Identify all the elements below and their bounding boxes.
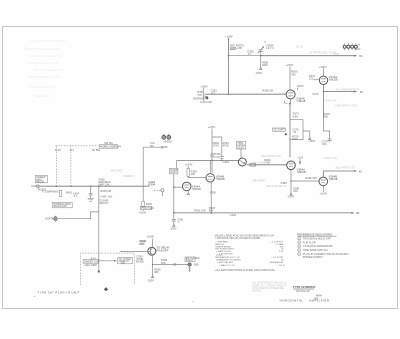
svg-text:R383: R383 xyxy=(281,181,288,185)
svg-text:56K: 56K xyxy=(209,208,214,212)
power +150V position xyxy=(139,210,147,215)
svg-text:B26: B26 xyxy=(194,263,199,267)
capacitor C390 xyxy=(172,217,184,224)
power +100V V384A xyxy=(297,155,303,163)
svg-text:+ 1 R Ω: + 1 R Ω xyxy=(277,264,285,267)
svg-text:SWEEP TRIG HOLDOFF AMP: SWEEP TRIG HOLDOFF AMP xyxy=(24,47,60,51)
svg-text:B3: B3 xyxy=(360,90,364,94)
svg-text:B4: B4 xyxy=(359,54,363,58)
svg-text:SWEEP GENERATOR CKT: SWEEP GENERATOR CKT xyxy=(28,75,61,79)
svg-text:R380 470K: R380 470K xyxy=(324,157,337,160)
svg-text:-100V: -100V xyxy=(147,278,154,282)
svg-text:6.8K: 6.8K xyxy=(292,137,298,141)
svg-text:R391 15K: R391 15K xyxy=(194,208,206,212)
wire dc-shift bypass branch xyxy=(290,120,303,140)
svg-text:6.8K: 6.8K xyxy=(293,114,299,118)
svg-text:CT/SLOPE GENERATOR: CT/SLOPE GENERATOR xyxy=(303,244,333,248)
ground xyxy=(88,198,94,201)
svg-text:SWP MAG: SWP MAG xyxy=(110,170,122,173)
capacitor C406 to ground xyxy=(89,186,93,198)
svg-text:PICKOFF: PICKOFF xyxy=(156,248,168,252)
svg-text:...: ... xyxy=(365,49,367,52)
svg-text:-100V: -100V xyxy=(170,226,177,230)
capacitor C358 xyxy=(247,49,254,56)
svg-text:15K: 15K xyxy=(324,115,329,119)
power -100V xyxy=(147,276,154,283)
svg-text:2.5V: 2.5V xyxy=(279,251,284,253)
wire main node line xyxy=(177,159,239,161)
resistor R394 position xyxy=(142,201,153,207)
svg-text:HORIZ DISPLAY: HORIZ DISPLAY xyxy=(100,144,121,148)
svg-text:POWER SUPPLY: POWER SUPPLY xyxy=(303,255,324,259)
svg-text:TRIGGER & HOLD-OFF: TRIGGER & HOLD-OFF xyxy=(303,236,332,240)
label to delay pickoff xyxy=(156,246,170,253)
svg-text:33K: 33K xyxy=(291,72,296,76)
wire trimmer down xyxy=(260,56,262,67)
svg-text:.01: .01 xyxy=(293,130,297,134)
tube V364B xyxy=(206,174,214,182)
tube V364A trigger CF xyxy=(182,182,191,194)
resistor R356 xyxy=(230,44,245,50)
wire V364B cathode down xyxy=(210,182,212,213)
svg-text:TYPE 547/RM547: TYPE 547/RM547 xyxy=(293,285,316,289)
svg-text:½6DJ8: ½6DJ8 xyxy=(216,177,225,181)
svg-text:B347: B347 xyxy=(354,47,361,51)
power +150V R366 xyxy=(185,163,193,169)
svg-text:R368 1M: R368 1M xyxy=(262,88,273,92)
svg-text:R365: R365 xyxy=(210,191,217,195)
svg-text:C392: C392 xyxy=(230,213,237,217)
svg-text:SWP/MAG AC: SWP/MAG AC xyxy=(269,261,284,264)
svg-text:R408 1M: R408 1M xyxy=(100,189,111,193)
junction xyxy=(228,55,230,57)
svg-text:TYPE 547 PLUG-IN UNIT: TYPE 547 PLUG-IN UNIT xyxy=(37,291,80,295)
wire V374A cathode down xyxy=(323,85,325,119)
power -150V xyxy=(255,67,262,75)
svg-text:HF BW: HF BW xyxy=(92,148,101,152)
svg-text:+ SAW: + SAW xyxy=(224,35,233,39)
svg-text:27K: 27K xyxy=(197,93,202,97)
resistor R373 xyxy=(293,112,300,119)
svg-text:GAIN ADJ: GAIN ADJ xyxy=(200,100,213,104)
svg-text:C400: C400 xyxy=(31,184,38,188)
svg-text:+150V: +150V xyxy=(185,163,193,167)
svg-text:DELAY PICKOFF CKT: DELAY PICKOFF CKT xyxy=(30,85,57,89)
wire V364B plate up xyxy=(209,160,211,172)
svg-text:68K: 68K xyxy=(154,270,159,274)
svg-text:+100: +100 xyxy=(297,155,303,159)
svg-text:INPUT: INPUT xyxy=(186,258,194,262)
svg-text:R394: R394 xyxy=(148,183,155,187)
svg-text:TIME BASE A: TIME BASE A xyxy=(34,94,50,98)
time-base unit boundary xyxy=(80,253,134,285)
svg-text:-150V: -150V xyxy=(287,195,294,199)
tube V364A label xyxy=(296,96,305,103)
wire to -100V xyxy=(303,131,311,140)
junction xyxy=(285,133,287,135)
capacitor C364 xyxy=(220,157,229,164)
svg-text:56K: 56K xyxy=(161,261,166,265)
svg-text:+150V: +150V xyxy=(139,210,147,214)
resistor R369 xyxy=(264,158,271,165)
wire saw input vertical xyxy=(228,39,230,94)
wire arrow to display sw xyxy=(98,260,116,262)
svg-text:1×10: 1×10 xyxy=(55,148,61,152)
tube V374A xyxy=(319,76,327,84)
resistor R401 xyxy=(59,190,72,196)
wire grid line to V364A xyxy=(205,93,286,95)
svg-text:R401: R401 xyxy=(66,191,73,195)
svg-text:TO SWP/MAG: TO SWP/MAG xyxy=(42,189,59,193)
resistor R370 xyxy=(297,84,304,90)
resistor R362 xyxy=(213,141,220,148)
capacitor C379 xyxy=(321,139,331,146)
svg-text:DL 93: DL 93 xyxy=(296,45,303,48)
label to horiz display sw box xyxy=(118,257,133,265)
index diamond xyxy=(104,287,108,291)
svg-text:B6: B6 xyxy=(164,145,168,149)
svg-text:R370: R370 xyxy=(297,84,304,88)
resistor R376 xyxy=(292,134,299,141)
svg-text:L SWP CAL ADJ: L SWP CAL ADJ xyxy=(217,261,233,264)
tube V374A label xyxy=(329,75,338,82)
svg-text:.001: .001 xyxy=(293,189,299,193)
tube V384B label xyxy=(329,174,338,181)
resistor R393 xyxy=(209,206,216,213)
svg-text:FLIP FLOP: FLIP FLOP xyxy=(303,240,316,244)
label sweep mag regis box xyxy=(35,175,47,184)
resistor R358 xyxy=(262,60,269,67)
node +SAW input xyxy=(224,35,233,41)
wire V364A grid xyxy=(174,186,183,188)
resistor R368b on line xyxy=(250,163,255,166)
svg-text:.001: .001 xyxy=(322,142,328,146)
svg-text:+150V: +150V xyxy=(147,235,155,239)
svg-text:½6DJ8: ½6DJ8 xyxy=(297,170,306,174)
tube V384B xyxy=(319,177,328,186)
svg-text:100K: 100K xyxy=(262,63,268,67)
wire junction down xyxy=(173,213,175,220)
power -100V xyxy=(170,224,177,230)
wire centering to pot xyxy=(240,149,242,158)
svg-text:C347: C347 xyxy=(333,53,340,56)
svg-text:(SEE PARTS LIST): (SEE PARTS LIST) xyxy=(335,105,357,108)
svg-text:5.6K: 5.6K xyxy=(214,155,220,159)
svg-text:SEE PARTS: SEE PARTS xyxy=(252,180,266,183)
wire main switch line xyxy=(39,185,149,187)
tube V384A xyxy=(287,161,296,170)
svg-text:270K: 270K xyxy=(264,160,270,164)
connector input terminal xyxy=(31,184,46,191)
wire V384B grid line xyxy=(291,180,319,182)
svg-text:R14: R14 xyxy=(91,256,96,260)
wire V384B plate to B2 xyxy=(323,170,356,177)
reference indicators block xyxy=(297,232,349,259)
svg-text:+150V: +150V xyxy=(200,84,208,88)
label time base xyxy=(136,255,144,264)
resistor R372 xyxy=(309,74,316,81)
tube V364A input CF xyxy=(285,90,296,105)
svg-text:B5: B5 xyxy=(356,211,360,215)
wire transistor base xyxy=(120,251,150,253)
capacitor C404 xyxy=(73,191,80,198)
tube V364B label xyxy=(216,174,225,181)
bottom-right paragraph xyxy=(252,282,287,293)
wire long line to B5 xyxy=(174,212,354,214)
resistor R396 xyxy=(161,258,168,265)
wire R366 to V364B grid xyxy=(188,176,205,177)
resistor R398 xyxy=(154,267,161,274)
power +150V cathode follower xyxy=(147,235,155,248)
wire switch to plug vertical xyxy=(98,186,100,271)
connector J350 pins xyxy=(162,134,172,144)
wire left node branch xyxy=(176,160,178,168)
svg-text:CIRCUIT: CIRCUIT xyxy=(98,201,109,205)
svg-text:DC SHIFT: DC SHIFT xyxy=(274,128,286,132)
power -150V lower xyxy=(287,193,294,199)
potentiometer SWP/MAG GAIN ADJ xyxy=(193,90,213,104)
wire to B3 xyxy=(323,91,357,93)
wire T2A to B6 xyxy=(143,141,168,149)
svg-text:REGIS ADJ: REGIS ADJ xyxy=(53,204,67,208)
svg-text:. . . .: . . . . xyxy=(253,238,257,240)
svg-text:SW: SW xyxy=(121,261,126,265)
svg-text:+SEL SWP: +SEL SWP xyxy=(84,263,97,267)
junction dots xyxy=(56,185,58,187)
svg-text:SEE PARTS LIST: SEE PARTS LIST xyxy=(335,167,355,170)
power +100V V374A xyxy=(319,65,327,76)
svg-text:+GATE: +GATE xyxy=(45,217,54,221)
label trig level centering xyxy=(236,141,245,150)
svg-text:NOTED: NOTED xyxy=(252,290,261,293)
wire gain box down xyxy=(173,174,175,213)
wire plate V364A xyxy=(289,67,291,90)
svg-text:4.7: 4.7 xyxy=(74,194,78,198)
capacitor C358A trimmer xyxy=(258,47,264,56)
resistor R364 xyxy=(223,141,230,148)
svg-text:1M: 1M xyxy=(139,242,143,246)
svg-text:TIME BASE SWITCH: TIME BASE SWITCH xyxy=(303,248,328,252)
svg-text:270K: 270K xyxy=(213,144,219,148)
wire V364A cathode to V384A xyxy=(289,103,291,158)
svg-text:½6DJ8: ½6DJ8 xyxy=(329,78,338,82)
svg-text:TIME/CM AND DELAY TIME: TIME/CM AND DELAY TIME xyxy=(30,54,63,58)
svg-text:SWP CAL: SWP CAL xyxy=(98,182,110,186)
wire top output line to B4 xyxy=(261,55,357,57)
svg-text:POSITION: POSITION xyxy=(141,206,154,210)
svg-text:+225V: +225V xyxy=(286,63,294,67)
label sweep output box xyxy=(83,256,100,267)
svg-text:-100V: -100V xyxy=(308,139,315,143)
wire to trimmer xyxy=(229,55,261,57)
svg-text:HORIZONTAL DISPLAY SW: HORIZONTAL DISPLAY SW xyxy=(26,61,59,65)
wire gate line xyxy=(58,212,99,219)
lamp symbol xyxy=(54,216,58,221)
capacitor C397 xyxy=(174,263,176,266)
svg-text:½6DJ8: ½6DJ8 xyxy=(329,177,338,181)
caption type plug-in unit xyxy=(34,291,80,298)
resistor R399 xyxy=(139,240,146,247)
svg-text:1.5-7.3: 1.5-7.3 xyxy=(266,46,275,50)
svg-text:REFERENCE INDICATORS: REFERENCE INDICATORS xyxy=(297,232,332,236)
svg-text:R374 15K: R374 15K xyxy=(325,100,336,103)
svg-text:BASE): BASE) xyxy=(136,259,144,263)
resistor R360 xyxy=(291,70,298,77)
power +150V gain pot xyxy=(200,84,208,90)
junction xyxy=(173,212,175,214)
svg-text:SWP/MAG: SWP/MAG xyxy=(193,96,206,100)
svg-text:R382 10K: R382 10K xyxy=(305,176,317,180)
svg-text:+100V: +100V xyxy=(320,191,328,195)
svg-text:-150V: -150V xyxy=(255,71,262,75)
labels right of sw line xyxy=(98,178,113,205)
svg-text:+150V: +150V xyxy=(163,139,171,143)
svg-text:FOR EARLIER SN: FOR EARLIER SN xyxy=(266,185,287,188)
wire pot to V384A grid xyxy=(247,164,287,166)
transistor Q393 xyxy=(148,247,156,255)
svg-text:CENT: CENT xyxy=(237,146,244,150)
tube V384A label xyxy=(297,168,306,175)
capacitor C376 xyxy=(292,127,299,134)
potentiometer R367 mag gain xyxy=(238,158,246,166)
svg-text:+100V: +100V xyxy=(319,65,327,69)
svg-text:B6: B6 xyxy=(150,144,154,148)
svg-text:HORIZONTAL AMPLIFIER: HORIZONTAL AMPLIFIER xyxy=(280,299,330,303)
svg-text:+ MAG 2 X 1 W: + MAG 2 X 1 W xyxy=(219,264,235,267)
type number block xyxy=(293,285,322,300)
svg-text:SEE PARTS LIST: SEE PARTS LIST xyxy=(261,155,281,158)
svg-text:MAG GAIN: MAG GAIN xyxy=(251,161,264,164)
svg-text:4.7: 4.7 xyxy=(248,52,252,56)
resistor R352 xyxy=(197,90,204,97)
svg-text:+GATE OUT TO CRT CIRCUIT: +GATE OUT TO CRT CIRCUIT xyxy=(30,39,66,43)
svg-text:220: 220 xyxy=(309,76,314,80)
junction plug xyxy=(98,271,100,273)
resistor R379 xyxy=(324,112,331,119)
svg-text:1×1: 1×1 xyxy=(69,148,74,152)
svg-text:TO LOWER DEFL PL: TO LOWER DEFL PL xyxy=(335,89,360,92)
capacitor C386 xyxy=(293,186,300,193)
svg-text:C409 .001: C409 .001 xyxy=(100,194,113,198)
svg-text:+ALL SWITCHES SHOWN IN DOW: +ALL SWITCHES SHOWN IN DOWN (OFF) POSITI… xyxy=(215,269,276,272)
svg-text:10K: 10K xyxy=(191,172,196,176)
resistor R390 label xyxy=(148,180,155,186)
resistor R366 xyxy=(187,169,197,177)
svg-text:R394: R394 xyxy=(146,202,153,206)
svg-text:½6DJ8: ½6DJ8 xyxy=(296,99,305,103)
tube V364A label xyxy=(192,184,201,191)
svg-text:DELAYING SWEEP TRIG: DELAYING SWEEP TRIG xyxy=(34,68,64,72)
wire B6 branch down xyxy=(142,147,144,201)
label normal mag regis box xyxy=(52,202,72,208)
wire V384A cathode down xyxy=(290,170,292,193)
notes block xyxy=(214,234,284,272)
connector CRT deflection plate pins xyxy=(343,43,357,50)
svg-text:470K: 470K xyxy=(223,144,229,148)
svg-text:S/N 101-UP: S/N 101-UP xyxy=(296,289,310,293)
wire V374A grid xyxy=(314,79,320,81)
switch linkage dashed xyxy=(55,146,98,186)
svg-text:4.7: 4.7 xyxy=(211,91,215,95)
svg-text:½6DJ8: ½6DJ8 xyxy=(192,187,201,191)
svg-text:GAIN: GAIN xyxy=(170,170,176,174)
wire jog right column xyxy=(324,118,330,139)
svg-text:NORM XI: NORM XI xyxy=(123,175,134,178)
connector ext input jack xyxy=(188,263,199,272)
label position box xyxy=(140,206,153,210)
connector stub xyxy=(154,189,164,196)
capacitor C362 xyxy=(211,88,218,95)
svg-text:+225V: +225V xyxy=(208,125,216,129)
label DC SHIFT xyxy=(273,128,286,132)
resistor R363 xyxy=(211,152,221,159)
svg-text:REGIS: REGIS xyxy=(36,180,44,184)
label ext horiz input box xyxy=(185,256,200,262)
resistor R395 xyxy=(140,239,147,246)
wire divider branches xyxy=(212,128,222,172)
svg-text:B2: B2 xyxy=(359,169,363,173)
wire ext horiz line xyxy=(153,255,189,276)
junction xyxy=(290,180,292,182)
svg-text:C374: C374 xyxy=(312,92,319,96)
wire V384B cathode xyxy=(322,186,324,192)
label norm gain adj xyxy=(169,168,178,174)
label horiz display switch box xyxy=(99,141,121,148)
